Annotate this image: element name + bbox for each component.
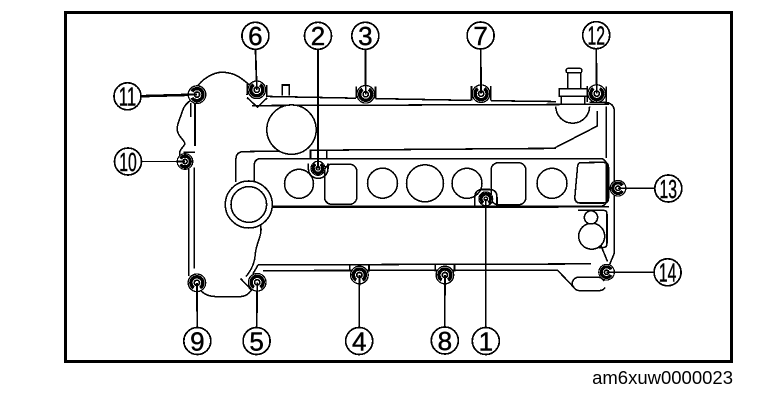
- wire bolt11 lower boss lines: [184, 103, 196, 152]
- leader 13: [618, 187, 655, 189]
- oil cap outer: [225, 181, 272, 228]
- boss ticks bolt 12: [587, 86, 606, 102]
- boss arc bolt 1: [475, 190, 497, 207]
- keyhole panel: [578, 210, 607, 247]
- callout 11: [114, 82, 141, 112]
- filler lip: [566, 68, 582, 73]
- border frame: [64, 11, 733, 363]
- leader 6: [256, 49, 257, 90]
- callout 9: [184, 326, 211, 356]
- svg-text:12: 12: [587, 21, 605, 51]
- boss arc bolt 2: [308, 151, 328, 178]
- rail hole D: [452, 168, 482, 198]
- wire right edge: [609, 111, 614, 266]
- wire left wavy edge 11 to 10: [177, 100, 192, 162]
- wire V boss under bolt 6: [247, 98, 267, 108]
- callout 3: [352, 21, 379, 51]
- VVT circle: [267, 105, 316, 154]
- leader 12: [595, 49, 598, 94]
- rail hole B: [368, 168, 398, 198]
- boss ticks bolt 7: [472, 86, 491, 101]
- callout 10: [115, 147, 142, 177]
- callout 14: [654, 258, 681, 288]
- wire bottom-right tab: [572, 277, 605, 290]
- filler base: [559, 89, 587, 97]
- wire keyhole-panel diagonal: [601, 245, 608, 262]
- bolt 9: [188, 274, 206, 292]
- bolt 2: [311, 161, 325, 176]
- bolt 13: [610, 180, 626, 196]
- svg-text:1: 1: [479, 326, 493, 356]
- filler neck: [568, 73, 581, 89]
- bolt 14: [599, 264, 615, 280]
- svg-text:5: 5: [249, 326, 263, 356]
- tab P on top edge: [282, 85, 289, 95]
- callout 2: [305, 21, 332, 51]
- wire left double vertical: [189, 168, 195, 277]
- svg-text:4: 4: [352, 326, 366, 356]
- keyhole big circle: [579, 223, 605, 249]
- rail hole A: [285, 169, 314, 198]
- rail hole C: [407, 165, 444, 202]
- callout 7: [467, 21, 494, 51]
- wire top-right corner: [606, 103, 614, 112]
- boss ticks bolt 6: [247, 84, 267, 96]
- rail outer left end: [236, 152, 244, 182]
- keyhole small circle: [584, 211, 597, 224]
- bolt 3: [357, 85, 375, 103]
- wire top edge lower line: [252, 104, 609, 105]
- leader 8: [444, 275, 446, 327]
- svg-text:9: 9: [190, 326, 204, 356]
- leader 1: [485, 199, 487, 327]
- callout 13: [655, 174, 682, 204]
- svg-text:11: 11: [119, 82, 137, 112]
- wire top edge upper line: [266, 96, 606, 102]
- callout 5: [243, 326, 270, 356]
- svg-text:6: 6: [248, 21, 262, 51]
- wire top face diagonal: [520, 111, 597, 149]
- rail inner rounded rect: [254, 159, 606, 207]
- callout 8: [431, 326, 458, 356]
- bolt 8: [436, 266, 454, 284]
- leader 10: [142, 161, 186, 163]
- svg-text:7: 7: [473, 21, 487, 51]
- rail hole E: [537, 168, 567, 198]
- filler boss arc: [556, 106, 590, 123]
- svg-text:14: 14: [659, 258, 677, 288]
- wire top-left hump: [196, 72, 249, 89]
- callout 1: [472, 326, 499, 356]
- oil cap inner: [231, 187, 267, 223]
- svg-text:am6xuw0000023: am6xuw0000023: [592, 367, 733, 388]
- svg-text:2: 2: [311, 21, 325, 51]
- svg-text:10: 10: [119, 147, 137, 177]
- boss ticks bolt 4: [350, 265, 369, 272]
- bolt 5: [248, 274, 266, 292]
- bolt 12: [588, 84, 606, 102]
- leader 4: [358, 275, 360, 328]
- leader 5: [256, 282, 259, 327]
- bolt 11: [188, 86, 206, 104]
- wire bottom-left U dip: [200, 286, 255, 297]
- wire bottom edge upper: [258, 264, 591, 265]
- rail outer bottom: [226, 206, 609, 209]
- callout 6: [242, 21, 269, 51]
- rail end square H: [575, 162, 609, 203]
- callout 12: [583, 21, 610, 51]
- boss ticks bolt 8: [435, 265, 454, 272]
- callout 4: [346, 326, 373, 356]
- svg-text:3: 3: [358, 21, 372, 51]
- leader 2: [317, 49, 319, 166]
- wire inner right vertical: [605, 107, 607, 159]
- bolt 7: [472, 84, 490, 102]
- leader 11: [141, 95, 197, 97]
- rail square G: [491, 163, 526, 205]
- bolt 1: [479, 192, 493, 206]
- leader 3: [364, 49, 366, 94]
- leader 7: [480, 49, 482, 94]
- oil cap S-curve to bolt 5: [241, 225, 262, 290]
- wire bottom edge lower: [263, 270, 574, 287]
- wire bolt5 corner tick: [253, 265, 258, 274]
- svg-text:8: 8: [438, 326, 452, 356]
- leader 9: [196, 283, 198, 328]
- rail outer top: [244, 148, 556, 151]
- boss ticks bolt 3: [356, 87, 375, 99]
- bolt 6: [248, 80, 266, 98]
- rail square F: [325, 164, 357, 204]
- leader 14: [607, 271, 655, 273]
- svg-text:13: 13: [660, 174, 678, 204]
- bolt 4: [351, 266, 369, 284]
- bolt 10: [177, 154, 193, 170]
